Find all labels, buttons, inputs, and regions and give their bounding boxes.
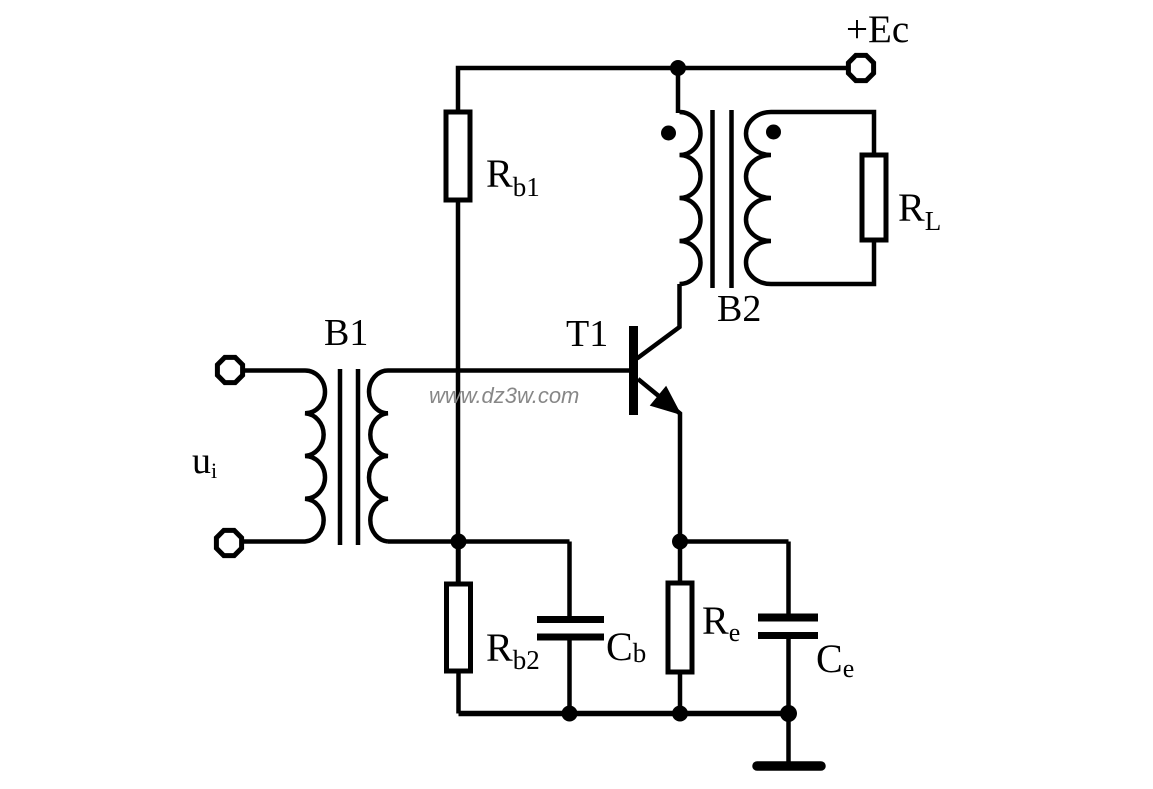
svg-text:www.dz3w.com: www.dz3w.com	[429, 383, 579, 408]
terminal ui top octagon	[217, 357, 242, 382]
wire top rail from Rb1 top corner to +Ec terminal	[458, 68, 846, 112]
svg-text:T1: T1	[566, 313, 608, 355]
svg-text:B1: B1	[324, 312, 368, 354]
transformer B1 core	[340, 369, 358, 545]
node junction dot Cb bottom	[562, 706, 578, 722]
wire Rb2 top lead	[456, 542, 461, 585]
transformer B2 core	[713, 110, 732, 288]
wire RL bottom to B2 secondary bottom	[771, 240, 874, 284]
wire B1 secondary bottom to Cb top corner	[388, 539, 570, 544]
wire top rail down to B2 primary	[676, 68, 681, 113]
resistor Re	[668, 583, 692, 672]
svg-text:+Ec: +Ec	[846, 8, 909, 51]
resistor Rb2	[447, 584, 471, 671]
phase dot B2 primary	[661, 126, 676, 141]
wire Ce bottom lead	[786, 639, 791, 714]
transformer B2 primary winding	[680, 112, 701, 284]
resistor RL	[862, 155, 886, 240]
node junction dot base column / B1 bottom	[451, 534, 467, 550]
terminal +Ec octagon	[848, 55, 873, 80]
wire collector: B2 primary bottom to transistor	[637, 284, 680, 359]
wire Ce top lead	[786, 542, 791, 615]
wire Cb bottom lead	[567, 641, 572, 714]
phase dot B2 secondary	[766, 125, 781, 140]
node junction dot Re bottom	[672, 706, 688, 722]
terminal ui bottom octagon	[216, 530, 241, 555]
wire Re bottom lead	[678, 672, 683, 714]
wire to ground	[786, 714, 791, 763]
ground	[757, 761, 821, 771]
transistor T1 base bar	[629, 326, 638, 415]
resistor Rb1	[446, 112, 470, 200]
wire Rb2 bottom lead	[456, 671, 461, 714]
wire Rb1 bottom down to Rb2 (base column)	[456, 200, 461, 584]
wire base: B1 secondary top to transistor base	[388, 368, 629, 373]
wire emitter junction to Ce top corner	[680, 539, 789, 544]
wire B2 secondary top to RL	[771, 112, 874, 155]
wire Re top lead	[678, 542, 683, 584]
svg-text:B2: B2	[717, 288, 761, 330]
transformer B1 primary winding	[242, 371, 325, 542]
transformer B1 secondary winding	[369, 371, 388, 542]
wire bottom rail	[459, 711, 789, 717]
node junction dot Ce bottom	[780, 705, 797, 722]
node junction dot on top rail	[670, 60, 686, 76]
transistor T1 emitter arrow	[652, 388, 679, 413]
wire Cb top lead	[567, 542, 572, 617]
node emitter junction dot	[672, 534, 688, 550]
transformer B2 secondary winding	[746, 112, 771, 284]
transistor T1 emitter	[638, 379, 680, 542]
capacitor Ce plates	[758, 614, 818, 622]
capacitor Cb plates	[537, 616, 604, 623]
